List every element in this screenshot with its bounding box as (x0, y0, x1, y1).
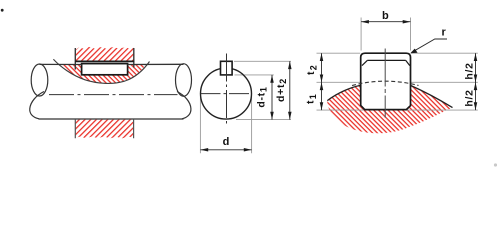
extension line key bottom level (317, 109, 478, 111)
dimension line h/2 (475, 53, 477, 110)
shaft keyway pocket hatch (58, 64, 146, 83)
hub upper section hatch (76, 47, 134, 62)
dimension line d+t2 (289, 61, 291, 119)
key cross-section (361, 53, 411, 109)
hub keyway bottom line (75, 60, 134, 62)
extension line shaft surface level (317, 81, 478, 83)
vertical centerline (226, 54, 228, 127)
key chamfer lines (362, 60, 410, 65)
extension line circle bottom (236, 119, 291, 121)
shaft right end curve (177, 92, 191, 119)
svg-text:r: r (441, 26, 446, 38)
shaft top line (40, 63, 184, 65)
shaft left end curve (30, 92, 44, 119)
keyway rect (221, 61, 233, 75)
shaft surface arc left (327, 85, 360, 100)
shaft cross-section circle (201, 68, 252, 119)
extension line keyway top (234, 60, 291, 62)
shaft surface arc right (411, 85, 453, 107)
dimension line t1 t2 (321, 53, 323, 110)
svg-text:h/2: h/2 (463, 62, 475, 79)
hub lower side lines (75, 120, 133, 139)
dimension line d-t1 (271, 75, 273, 120)
extension lines d (200, 97, 251, 153)
svg-text:d: d (223, 136, 230, 148)
shaft bottom line (39, 118, 184, 120)
hidden shaft arc (dashed) (352, 81, 419, 85)
key (side view) (82, 64, 128, 75)
extension line keyway bottom (235, 74, 274, 76)
shaft section hatch blob (327, 85, 452, 133)
shaft centerline (49, 94, 178, 96)
pocket break line (53, 59, 149, 83)
horizontal centerline (201, 93, 252, 95)
hub lower section hatch (75, 120, 133, 139)
shaft left end ellipse (31, 64, 48, 96)
dimension line b (361, 21, 410, 23)
speck top-left (1, 9, 4, 12)
leader r (412, 39, 447, 52)
hub upper side lines (75, 48, 134, 70)
dimension line d (200, 149, 251, 151)
key centerline (384, 49, 386, 118)
speck bottom-right (494, 163, 497, 166)
svg-text:h/2: h/2 (463, 89, 475, 106)
extension line key top level (317, 52, 478, 54)
svg-text:b: b (382, 10, 389, 22)
shaft right end ellipse (176, 64, 192, 97)
extension lines b (361, 18, 410, 51)
